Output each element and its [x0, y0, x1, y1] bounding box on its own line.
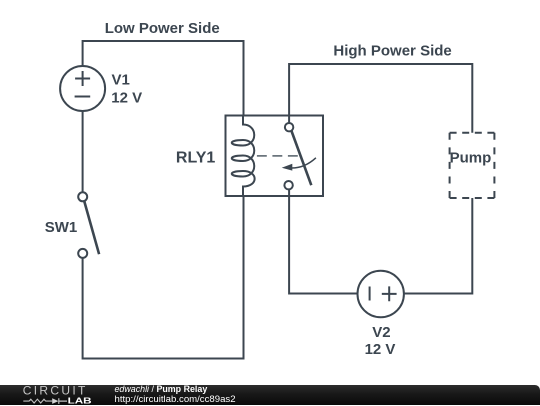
- switch SW1: [78, 192, 99, 258]
- CircuitLab logo: resistor zigzag: [23, 399, 52, 403]
- wire: V2 minus to relay switch bottom: [289, 190, 358, 294]
- relay RLY1 dashed actuator link: [257, 155, 299, 157]
- svg-text:LAB: LAB: [68, 396, 92, 405]
- footer bar: [0, 385, 540, 406]
- CircuitLab logo: diode symbol: [52, 398, 58, 404]
- svg-text:Pump: Pump: [450, 150, 492, 167]
- svg-text:CIRCUIT: CIRCUIT: [23, 385, 86, 398]
- svg-text:RLY1: RLY1: [176, 150, 216, 167]
- wire: relay switch top to Pump top: [289, 64, 472, 133]
- svg-text:Low Power Side: Low Power Side: [105, 20, 220, 37]
- relay RLY1 actuation arrow: [282, 158, 316, 171]
- wire: V1 top to relay coil top: [83, 41, 244, 116]
- svg-text:12 V: 12 V: [111, 90, 142, 107]
- relay RLY1 coil: [232, 116, 255, 197]
- svg-text:High Power Side: High Power Side: [333, 43, 451, 60]
- wire: Pump bottom to V2 plus: [404, 198, 472, 294]
- voltage source V1: [60, 66, 105, 111]
- label V1 value: [111, 72, 142, 107]
- relay RLY1 switch contacts: [284, 123, 311, 189]
- svg-text:V1: V1: [112, 72, 130, 89]
- svg-text:edwachli / Pump Relay: edwachli / Pump Relay: [115, 385, 208, 394]
- voltage source V2: [358, 271, 404, 317]
- wire: SW1 bottom to relay coil bottom: [83, 196, 244, 359]
- wire: V1 bottom to SW1 top: [82, 111, 84, 192]
- svg-text:http://circuitlab.com/cc89as2: http://circuitlab.com/cc89as2: [115, 393, 236, 404]
- svg-text:V2: V2: [372, 324, 390, 341]
- svg-text:12 V: 12 V: [365, 341, 396, 358]
- svg-text:SW1: SW1: [45, 219, 78, 236]
- load Pump (dashed box): [450, 133, 495, 198]
- relay RLY1 box: [226, 116, 324, 197]
- label V2 value: [365, 324, 396, 358]
